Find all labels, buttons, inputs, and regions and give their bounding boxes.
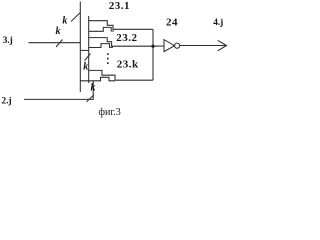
svg-text:фиг.3: фиг.3 [99, 107, 121, 118]
svg-text:23.1: 23.1 [109, 0, 130, 12]
svg-text:k: k [91, 83, 96, 94]
svg-text:k: k [56, 26, 61, 37]
svg-text:4.j: 4.j [213, 18, 223, 28]
svg-text:24: 24 [166, 16, 178, 28]
svg-text:23.2: 23.2 [116, 32, 137, 44]
svg-text:23.k: 23.k [117, 58, 139, 70]
svg-text:3.j: 3.j [3, 36, 13, 46]
svg-text:k: k [83, 62, 88, 73]
svg-text:2.j: 2.j [2, 97, 12, 107]
svg-text:k: k [62, 16, 67, 27]
